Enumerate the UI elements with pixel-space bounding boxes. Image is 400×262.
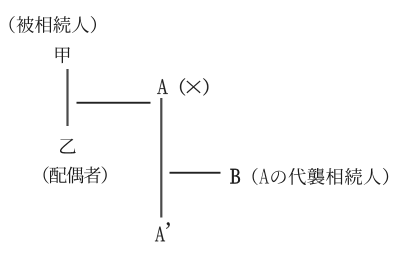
wire: vertical line from A down to A' — [160, 98, 162, 218]
wire: horizontal line from A's line to B — [170, 172, 221, 174]
label （Aの代襲相続人） caption for B — [253, 168, 389, 185]
label （被相続人） decedent caption — [10, 16, 97, 33]
wire: vertical line between 甲 and 乙 — [66, 69, 68, 126]
wire: horizontal line from couple to A — [77, 102, 151, 104]
label （配偶者） spouse caption — [44, 166, 107, 183]
person B (representative heir) — [230, 169, 240, 184]
person 乙 (spouse) — [60, 139, 76, 154]
label A（×） deceased child A — [157, 78, 208, 95]
label A’ renounced/child marker at bottom — [155, 222, 170, 241]
person 甲 (decedent) — [56, 47, 70, 63]
